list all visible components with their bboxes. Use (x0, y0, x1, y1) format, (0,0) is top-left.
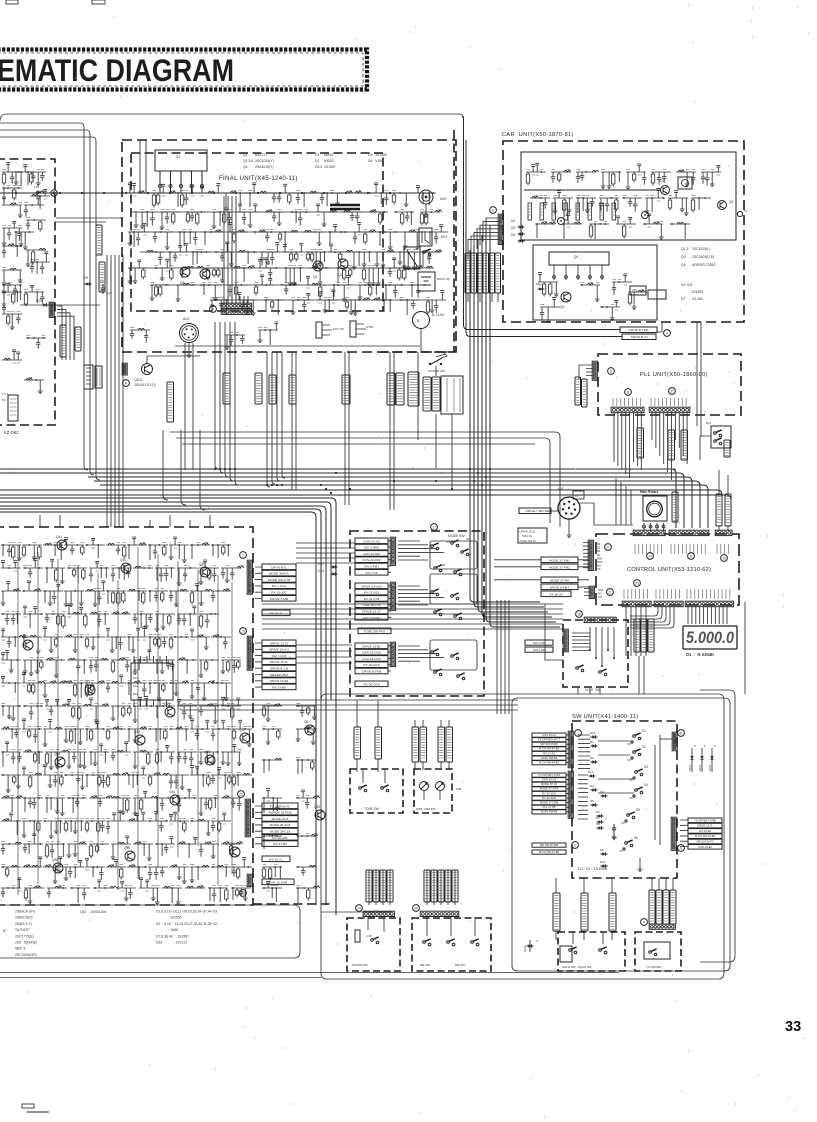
RC network (45, 658, 65, 677)
svg-text:18: 18 (577, 613, 581, 617)
wire group mch down (578, 687, 600, 694)
svg-text:D9: D9 (84, 276, 88, 280)
bus wire (94, 481, 700, 528)
svg-text:Q39: Q39 (199, 562, 205, 566)
svg-text:MR SW: MR SW (455, 963, 465, 967)
switch (714, 432, 717, 435)
frame nested 4 (0, 137, 100, 480)
RC network (291, 293, 311, 314)
connector 25 (420, 911, 459, 916)
wire (282, 352, 285, 478)
wire bundle corridor (107, 255, 123, 527)
RC network (67, 604, 87, 628)
svg-text:SW-2-MR5: SW-2-MR5 (364, 546, 380, 550)
RC network (106, 628, 126, 652)
wire tag RX-20-B8 (423, 377, 431, 411)
car signal wire (524, 189, 660, 191)
svg-text:Q40: Q40 (120, 558, 126, 562)
wire group pll down (616, 478, 631, 525)
RC network (410, 285, 430, 298)
connector mode sw (390, 642, 395, 666)
RC network (64, 860, 84, 880)
svg-text:#B3* 3: #B3* 3 (15, 947, 25, 951)
frame bottom line (0, 972, 619, 974)
switch mode (431, 651, 434, 654)
svg-text:DR-43-B7L: DR-43-B7L (271, 565, 287, 569)
wire (490, 225, 560, 627)
svg-text:33: 33 (785, 1019, 801, 1035)
wire tag MR SW (424, 870, 430, 902)
RC network (85, 858, 105, 879)
RC network (67, 842, 87, 857)
svg-text:TONE SW: TONE SW (364, 807, 379, 811)
svg-text:RX-33-7L: RX-33-7L (269, 611, 283, 615)
RC network (280, 283, 300, 294)
RC network (190, 681, 215, 700)
svg-text:RX-7-C8: RX-7-C8 (365, 571, 377, 575)
svg-text:ON: ON (629, 779, 633, 782)
RC network (214, 242, 234, 267)
RC network (70, 888, 90, 903)
backup battery (418, 272, 435, 291)
wire group verticals (18, 545, 232, 895)
transistor Q2 (338, 259, 348, 269)
svg-text:2SA(3 3-Y): 2SA(3 3-Y) (15, 922, 32, 926)
scan mark (27, 1111, 49, 1113)
RC network (254, 275, 274, 296)
svg-text:MODE 37-FM2: MODE 37-FM2 (549, 565, 570, 569)
RC network (190, 819, 211, 835)
RC network (45, 559, 65, 583)
ref bubble 4 (641, 919, 648, 926)
svg-text:B3: B3 (597, 542, 601, 546)
svg-text:S5: S5 (636, 808, 640, 812)
svg-text:Q38: Q38 (52, 858, 58, 862)
RC network (1, 706, 21, 721)
svg-text:24: 24 (357, 907, 361, 911)
meter RF (436, 782, 445, 791)
svg-text:AVR/DR 16-PCB: AVR/DR 16-PCB (268, 811, 291, 815)
wire label MODE-57-C0 (532, 782, 566, 786)
wire label CAR-18-OC8 (355, 656, 388, 662)
CAR UNIT lower board (533, 245, 657, 320)
transistor Q16 (205, 755, 215, 765)
RC network (133, 791, 158, 815)
RC network (668, 191, 689, 216)
bus junction dots (214, 468, 216, 470)
RC network (23, 559, 43, 578)
wire (291, 352, 293, 490)
wire (579, 365, 593, 380)
wire label SW-2-MR5 (355, 544, 388, 550)
M.CH SW box (563, 620, 628, 687)
connector control bottom 1 (622, 601, 651, 607)
wire group to SW top (180, 700, 518, 710)
RC network (211, 768, 231, 790)
RC network (1, 775, 21, 793)
switch mode (451, 655, 454, 658)
RC network (106, 591, 126, 606)
diode D7 (597, 820, 604, 824)
wire (584, 589, 590, 596)
battery B 13.8V (413, 312, 430, 329)
svg-text:PLL-17-B8: PLL-17-B8 (543, 805, 556, 809)
RC network (264, 210, 284, 225)
wire label CAR-18-MR (355, 551, 388, 557)
RC network (1, 796, 23, 812)
wire tag DRIVE B-TMP (167, 382, 174, 422)
RC network (645, 189, 665, 214)
connector A row 2 (221, 309, 251, 314)
RC network (43, 765, 63, 788)
wire (57, 309, 66, 360)
svg-text:M.CH SW-44-B7: M.CH SW-44-B7 (539, 761, 559, 765)
RC network (296, 886, 320, 903)
svg-text:RX-30-20: RX-30-20 (549, 592, 563, 596)
RC network (127, 589, 147, 604)
svg-text:RX-32-50M: RX-32-50M (542, 796, 557, 800)
svg-text:10: 10 (241, 630, 245, 634)
svg-text:RX-30-SC8: RX-30-SC8 (542, 791, 556, 795)
crystal filter (678, 177, 692, 189)
RC network (368, 183, 388, 205)
RC network (262, 881, 282, 902)
wire label CAR-18-OC8 (355, 649, 388, 655)
RC network (43, 584, 63, 605)
connector mch left (563, 629, 568, 652)
RC network (89, 744, 109, 766)
RC network (85, 581, 105, 607)
RC network (155, 837, 175, 856)
svg-text:RX-27-FM8: RX-27-FM8 (364, 616, 380, 620)
RC network (93, 880, 117, 888)
RC network (89, 561, 109, 581)
connector A row 1 (221, 303, 251, 308)
wire label DR-43-B7L (262, 564, 296, 570)
svg-text:5151-51: 5151-51 (522, 534, 532, 538)
RC network (398, 252, 418, 270)
switch (714, 440, 717, 443)
svg-text:M.CH SW-44-B0: M.CH SW-44-B0 (539, 850, 559, 854)
wire tag car harness (465, 253, 471, 293)
RC network (691, 198, 711, 213)
svg-text:5.000.0: 5.000.0 (686, 629, 735, 647)
RC network (127, 681, 147, 696)
switch mode (451, 542, 454, 545)
RC network (345, 298, 370, 315)
scan mark (22, 1104, 34, 1108)
svg-text:ON: ON (619, 850, 623, 853)
svg-text:D6: D6 (511, 233, 515, 237)
RC network (89, 844, 109, 859)
ref bubble 7 (240, 552, 247, 559)
RC network (22, 767, 42, 789)
wire (494, 566, 541, 568)
resistor (355, 930, 360, 942)
svg-text:1 4 T: 1 4 T (2, 392, 9, 396)
pin labels (635, 544, 728, 554)
svg-text:Q4 : AF605F173282: Q4 : AF605F173282 (681, 263, 715, 267)
svg-text:D19: D19 (36, 299, 42, 303)
ref bubble 14 (647, 553, 654, 560)
key jack KEY (419, 228, 432, 246)
svg-text:A: A (212, 308, 215, 312)
RC network (1, 842, 22, 854)
svg-text:Q35: Q35 (124, 846, 130, 850)
wire label DRIVE 8-FMT (541, 584, 578, 590)
RC network (318, 290, 338, 313)
ref bubble 3 (678, 845, 685, 852)
wire label RX-28-A8F (262, 835, 298, 841)
RC network (26, 248, 46, 266)
svg-text:Q1,2 : 2SC1675(L): Q1,2 : 2SC1675(L) (681, 247, 710, 251)
RC network (211, 683, 231, 701)
svg-text:Q42 2SK6116#:: Q42 2SK6116#: (80, 910, 107, 914)
wire (187, 343, 192, 358)
svg-text:B1: B1 (597, 549, 601, 553)
RC network (185, 886, 205, 888)
RC network (169, 537, 189, 563)
RC network (599, 198, 619, 212)
RC network (210, 300, 230, 314)
RC network (89, 658, 109, 672)
connector 16 control left lower (589, 586, 594, 598)
svg-text:41: 41 (679, 732, 683, 736)
ref bubble 17 (669, 388, 676, 395)
wire label DRIVE-B-FM8 (355, 668, 388, 674)
RC network (155, 706, 175, 718)
RC network (177, 837, 197, 858)
wire (482, 235, 552, 617)
RC network (296, 760, 316, 774)
svg-text:D2: D2 (590, 756, 594, 760)
title box inner border (0, 53, 363, 86)
svg-text:M.CH SW-40-B3: M.CH SW-40-B3 (695, 834, 715, 838)
svg-text:CON-22-A5: CON-22-A5 (363, 539, 379, 543)
RC network (22, 857, 42, 867)
svg-text:RX-27-B6: RX-27-B6 (273, 842, 287, 846)
svg-text:Q4 2SA1015(Y): Q4 2SA1015(Y) (243, 165, 274, 169)
wire fan (468, 218, 499, 260)
wire label DRIVE 15-A-2 (262, 646, 296, 652)
transistor Q15 (240, 733, 250, 743)
connector PLL bottom left (611, 407, 644, 413)
svg-text:DRIVE 16-B2: DRIVE 16-B2 (270, 679, 289, 683)
power switch (429, 363, 431, 365)
diode D102 (711, 748, 713, 772)
svg-text:RX-31-7L: RX-31-7L (269, 857, 283, 861)
RC network (24, 285, 45, 306)
ref bubble 4 (664, 330, 671, 337)
svg-text:Q1: Q1 (176, 155, 181, 159)
wire label MR SW-36-F3 (688, 839, 722, 844)
switch (423, 251, 426, 254)
svg-text:2: 2 (574, 844, 576, 848)
connector 7 main (247, 560, 252, 594)
RC network (85, 775, 106, 788)
RC network (2, 350, 22, 360)
wire tag TX OFFSET A (649, 890, 655, 924)
wire (139, 140, 141, 193)
RC network (202, 285, 222, 301)
RC network (169, 637, 189, 650)
RC network (148, 867, 168, 880)
svg-text:M.CH SW-40-B3: M.CH SW-40-B3 (539, 747, 559, 751)
svg-text:2SA1012(Y,O): 2SA1012(Y,O) (134, 383, 156, 387)
RC network (89, 612, 109, 626)
RC network (169, 812, 189, 832)
RC network (67, 752, 87, 769)
RC network (353, 223, 376, 245)
transistor Q34 (55, 757, 65, 767)
svg-text:LOW: LOW (366, 935, 372, 938)
svg-text:1: 1 (159, 174, 161, 178)
RC network (372, 298, 392, 312)
connector control bottom 3 (685, 601, 733, 607)
ref bubble 10 (240, 628, 247, 635)
switch hi low (371, 939, 374, 942)
RC network (296, 706, 317, 720)
PLL UNIT box (598, 354, 741, 415)
wire label RX-30-SC8 (532, 791, 566, 795)
wire label MR SW-36-B0 (532, 742, 566, 746)
RC network (150, 285, 170, 301)
CAR UNIT upper board (521, 152, 736, 240)
RC network (190, 766, 210, 787)
wire tag MR SW (445, 870, 451, 902)
RC network (2, 197, 23, 218)
wire (321, 911, 392, 913)
AUX connector (180, 324, 199, 343)
wire label M.CH SW-44-B7 (532, 761, 566, 765)
relay box (560, 946, 572, 962)
RC network (67, 658, 87, 674)
transistor Q1 (661, 186, 670, 195)
svg-text:B2: B2 (597, 546, 601, 550)
wire (719, 470, 728, 531)
wire tag MODE-37 (255, 373, 262, 404)
svg-text:Q101: Q101 (134, 378, 142, 382)
RC network (24, 886, 44, 903)
RC network (45, 750, 69, 769)
bus wire (0, 494, 731, 500)
RC network (199, 660, 219, 678)
RC network (45, 614, 65, 629)
wire label RX-27-B6 (262, 841, 298, 847)
svg-text:DRIVE-14-A15: DRIVE-14-A15 (361, 584, 382, 588)
RC network (626, 164, 647, 190)
RC network (283, 243, 303, 262)
RC network (2, 283, 22, 306)
wire label CON-20-C0 (532, 778, 566, 782)
wire label M.CH SW-40-B3 (532, 747, 566, 751)
ref bubble 8 (608, 368, 615, 375)
RC network (2, 163, 22, 186)
RC network (43, 720, 63, 747)
wire label RX-27-A2 (532, 751, 566, 755)
RC network (23, 834, 43, 854)
wire tag RX-38-FB8 (420, 727, 427, 762)
svg-text:ON: ON (627, 743, 631, 746)
connector PLL bottom right (649, 407, 690, 413)
wire label CAR-16-CAR (262, 879, 294, 885)
RC network (1, 676, 21, 693)
svg-text:MODE 38-B7L: MODE 38-B7L (269, 572, 289, 576)
RC network (238, 204, 258, 228)
svg-text:3: 3 (680, 847, 682, 851)
wire group (255, 806, 262, 844)
wire link left unit to final (56, 218, 122, 222)
RC network (237, 250, 257, 264)
switch S3 (635, 771, 638, 774)
RC network (262, 834, 282, 849)
RC network (258, 322, 279, 345)
wire (580, 503, 633, 525)
RC network (358, 285, 378, 300)
svg-text:RX-30-OC8: RX-30-OC8 (363, 663, 379, 667)
RC network (701, 165, 721, 186)
svg-text:M.CH SW: M.CH SW (585, 688, 600, 692)
svg-text:RX-30-OC8: RX-30-OC8 (363, 682, 379, 686)
RC network (612, 274, 632, 295)
svg-text:AUX: AUX (183, 317, 190, 321)
wire tag FINAL-5-FM8 (412, 727, 419, 762)
ref bubble A (210, 306, 217, 313)
bus wire (0, 502, 331, 700)
wire (660, 738, 673, 740)
svg-text:B: 13.8V: B: 13.8V (432, 313, 445, 317)
RC network (296, 790, 320, 809)
wire (348, 352, 350, 505)
wire tag MR SW (438, 870, 444, 902)
RC network (2, 285, 22, 300)
svg-text:SW-7-CC8: SW-7-CC8 (272, 654, 287, 658)
wire label SCAN SW-B5 (532, 810, 566, 814)
wire tag CON-16-B8 (99, 262, 105, 292)
transistor Q4 (200, 269, 210, 279)
frame around SW area inner (512, 698, 730, 971)
wire tag METER-A (387, 373, 395, 405)
wire (57, 306, 62, 360)
svg-text:DRIVE B-TMP: DRIVE B-TMP (629, 328, 649, 332)
svg-text:DRIVE-7-MB: DRIVE-7-MB (270, 597, 288, 601)
RC network (199, 842, 219, 858)
wire label RX-31-7L (262, 856, 290, 862)
RC network (2, 188, 22, 203)
connector 13 control top (669, 530, 709, 535)
svg-text:D100: D100 (688, 764, 692, 771)
RC network (30, 189, 50, 209)
svg-text:MODE SW: MODE SW (448, 534, 465, 538)
IC Q4 (549, 252, 609, 265)
RC network (224, 191, 244, 210)
svg-text:TX OFFSET-47B4: TX OFFSET-47B4 (538, 773, 560, 777)
svg-text:Q2: Q2 (729, 200, 733, 204)
svg-text:4: 4 (191, 174, 193, 178)
wire tag HOLD SW (553, 893, 560, 931)
RC network (155, 568, 175, 582)
RC network (622, 198, 642, 212)
RC network (329, 244, 353, 262)
RC network (538, 273, 559, 297)
RC network (168, 243, 188, 267)
wire label DRIVE-15-4L (262, 659, 296, 665)
connector 1 sw (568, 731, 573, 768)
svg-text:B?: B? (3, 929, 7, 933)
ref bubble 17 (431, 524, 438, 531)
RC network (237, 293, 257, 316)
RC network (106, 773, 129, 787)
